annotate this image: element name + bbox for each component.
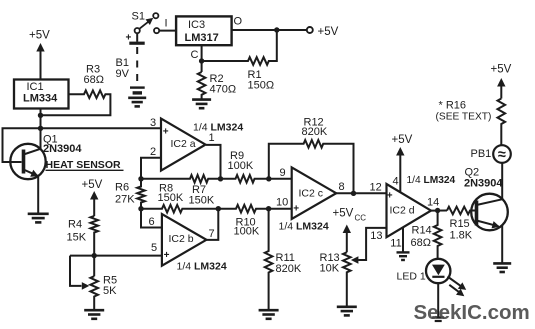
wire IC2a output to node	[206, 145, 221, 179]
svg-text:1/4: 1/4	[279, 221, 294, 233]
svg-text:150K: 150K	[189, 195, 215, 207]
svg-text:15K: 15K	[67, 232, 87, 244]
svg-text:9: 9	[280, 167, 286, 179]
terminal +5V output	[307, 27, 313, 33]
ground (battery B1)	[128, 97, 146, 100]
svg-text:IC2 a: IC2 a	[171, 138, 196, 150]
wire S1 to IC3 input	[159, 30, 176, 32]
wire lower line / resistor R8 150K / resistor R10 100K	[141, 205, 292, 213]
svg-text:HEAT SENSOR: HEAT SENSOR	[46, 159, 121, 171]
svg-text:+5V: +5V	[29, 30, 50, 42]
svg-text:IC2 c: IC2 c	[299, 187, 324, 199]
wire R4/R5 tap to IC2b pin 5	[70, 255, 162, 257]
svg-text:1/4: 1/4	[193, 122, 208, 134]
svg-text:+: +	[163, 126, 169, 137]
ground (R2)	[192, 98, 211, 101]
ground (Q1 emitter)	[28, 213, 49, 216]
svg-text:≈: ≈	[498, 147, 506, 163]
svg-text:LED 1: LED 1	[397, 270, 426, 282]
node junction R9/R12	[266, 176, 271, 181]
wire IC2b output to node	[206, 209, 218, 240]
node junction IC2c output/R12	[351, 191, 356, 196]
resistor R14 68&#937;	[434, 211, 442, 259]
svg-text:R15: R15	[450, 218, 470, 230]
op-amp IC2b (1/4 LM324)	[162, 214, 207, 266]
wire IC2d output	[431, 210, 447, 212]
LED1	[426, 259, 450, 283]
wire to IC2b pin 6	[141, 209, 162, 228]
wire IC2d pin 11	[402, 227, 404, 252]
svg-text:+5V: +5V	[333, 208, 354, 220]
svg-text:PB1: PB1	[471, 148, 492, 160]
resistor R2 470&#937;	[198, 72, 206, 99]
wire IC3 output	[232, 29, 307, 31]
wire sensor node to IC2a pin 3	[3, 128, 162, 162]
svg-text:LM317: LM317	[185, 32, 219, 44]
resistor R4 15K	[90, 216, 98, 276]
svg-text:12: 12	[370, 182, 382, 194]
svg-text:9V: 9V	[116, 68, 130, 80]
svg-text:5: 5	[151, 242, 157, 254]
svg-text:3: 3	[150, 117, 156, 129]
svg-text:820K: 820K	[276, 263, 302, 275]
op-amp IC2a (1/4 LM324)	[161, 119, 206, 171]
svg-text:B1: B1	[116, 57, 129, 69]
op-amp IC2c (1/4 LM324)	[292, 167, 337, 219]
svg-text:IC3: IC3	[188, 19, 205, 31]
IC1 LM334 current source	[14, 80, 69, 109]
svg-text:2N3904: 2N3904	[464, 178, 503, 190]
svg-text:LM324: LM324	[424, 175, 456, 186]
wire IC2c output to IC2d pin 12	[334, 192, 386, 194]
svg-text:1/4: 1/4	[407, 175, 421, 186]
svg-text:R14: R14	[412, 224, 432, 236]
ground (R5)	[84, 309, 104, 312]
svg-text:IC2 d: IC2 d	[390, 205, 415, 217]
switch S1	[153, 13, 158, 18]
svg-text:+5V: +5V	[392, 134, 413, 146]
node junction C/R2/R1	[199, 58, 204, 63]
svg-text:(SEE TEXT): (SEE TEXT)	[436, 112, 492, 123]
node junction R10/R11	[266, 206, 271, 211]
svg-text:+: +	[293, 203, 299, 214]
svg-text:LM324: LM324	[211, 122, 244, 134]
svg-text:C: C	[191, 49, 199, 61]
svg-text:2N3904: 2N3904	[43, 143, 82, 155]
resistor R12 820K	[269, 140, 354, 193]
node junction base-collector tie	[38, 126, 43, 131]
resistor R1 150&#937;	[202, 30, 277, 65]
svg-text:+5V: +5V	[318, 26, 339, 38]
svg-text:R6: R6	[115, 182, 129, 194]
node junction output/R14	[435, 208, 440, 213]
svg-text:5K: 5K	[103, 285, 117, 297]
node junction R3/IC1	[38, 113, 43, 118]
LED light arrows	[448, 277, 461, 286]
svg-text:10: 10	[276, 197, 288, 209]
svg-text:IC1: IC1	[27, 81, 44, 93]
power +5V (IC2d pin 4)	[399, 154, 401, 193]
svg-text:R4: R4	[68, 218, 82, 230]
svg-text:CC: CC	[355, 214, 367, 223]
wire IC3 adj pin C	[201, 45, 203, 72]
power +5V (R4)	[93, 198, 95, 216]
potentiometer R13 10K	[343, 252, 351, 306]
svg-text:4: 4	[393, 175, 399, 187]
power +5V (IC1 supply)	[40, 50, 42, 80]
power +5V CC (R13)	[346, 232, 348, 253]
battery B1 9V	[136, 33, 138, 42]
svg-text:150K: 150K	[158, 192, 184, 204]
ground (IC2d pin 11)	[397, 251, 410, 253]
node junction R6/R8/pin6	[138, 206, 143, 211]
ground (Q2 emitter)	[493, 262, 511, 265]
svg-text:14: 14	[427, 197, 439, 209]
svg-text:11: 11	[390, 237, 401, 249]
resistor R11 820K	[265, 209, 273, 310]
svg-text:8: 8	[339, 181, 345, 193]
transistor Q2 2N3904	[471, 194, 508, 231]
svg-text:1/4: 1/4	[177, 261, 192, 273]
svg-text:IC2 b: IC2 b	[169, 233, 194, 245]
wire IC2d pin 13 to R13 wiper	[358, 228, 386, 260]
svg-text:150Ω: 150Ω	[248, 80, 275, 92]
transistor Q1 2N3904 (diode-connected heat sensor)	[10, 144, 45, 179]
node junction R1/output	[274, 27, 279, 32]
svg-text:+: +	[387, 190, 393, 201]
svg-text:+: +	[164, 250, 170, 261]
wire IC1 bottom to Q1 collector	[40, 109, 42, 150]
node junction R4/R5 tap	[92, 253, 97, 258]
ground (R11)	[259, 309, 279, 312]
svg-text:470Ω: 470Ω	[210, 83, 237, 95]
node junction pin2/R7	[138, 176, 143, 181]
resistor R6 27K	[137, 179, 145, 209]
ground (R13)	[337, 305, 357, 308]
potentiometer R5 5K	[90, 276, 98, 309]
svg-text:I: I	[165, 18, 168, 30]
resistor R3 68&#937;	[43, 90, 110, 115]
svg-text:27K: 27K	[115, 193, 135, 205]
svg-text:+5V: +5V	[82, 179, 103, 191]
svg-text:820K: 820K	[302, 126, 328, 138]
svg-text:S1: S1	[132, 10, 145, 22]
power +5V (R16)	[500, 85, 502, 99]
svg-text:LM324: LM324	[296, 221, 329, 233]
svg-text:+5V: +5V	[491, 64, 512, 76]
resistor R15 1.8K	[447, 207, 476, 215]
IC3 LM317 regulator	[176, 16, 232, 45]
piezo buzzer PB1	[493, 145, 511, 163]
node junction IC2b output	[216, 206, 221, 211]
svg-text:LM334: LM334	[23, 93, 58, 105]
svg-text:O: O	[234, 16, 243, 28]
svg-text:68Ω: 68Ω	[411, 237, 431, 249]
wire upper line / resistor R7 150K / resistor R9 100K	[141, 175, 292, 183]
svg-text:6: 6	[149, 216, 155, 228]
svg-text:100K: 100K	[228, 160, 254, 172]
wire IC2a pin 2	[141, 158, 161, 179]
svg-text:LM324: LM324	[194, 261, 227, 273]
svg-text:* R16: * R16	[439, 100, 467, 112]
resistor R16 (see text)	[498, 99, 506, 146]
svg-text:SeekIC.com: SeekIC.com	[414, 301, 530, 324]
svg-text:1.8K: 1.8K	[450, 230, 473, 242]
op-amp IC2d (1/4 LM324)	[387, 184, 432, 237]
node junction IC2a output	[218, 176, 223, 181]
svg-text:13: 13	[370, 230, 382, 242]
svg-text:7: 7	[209, 228, 215, 240]
svg-text:2: 2	[150, 146, 156, 158]
svg-text:10K: 10K	[320, 263, 340, 275]
svg-text:68Ω: 68Ω	[84, 74, 104, 86]
svg-text:100K: 100K	[234, 225, 260, 237]
